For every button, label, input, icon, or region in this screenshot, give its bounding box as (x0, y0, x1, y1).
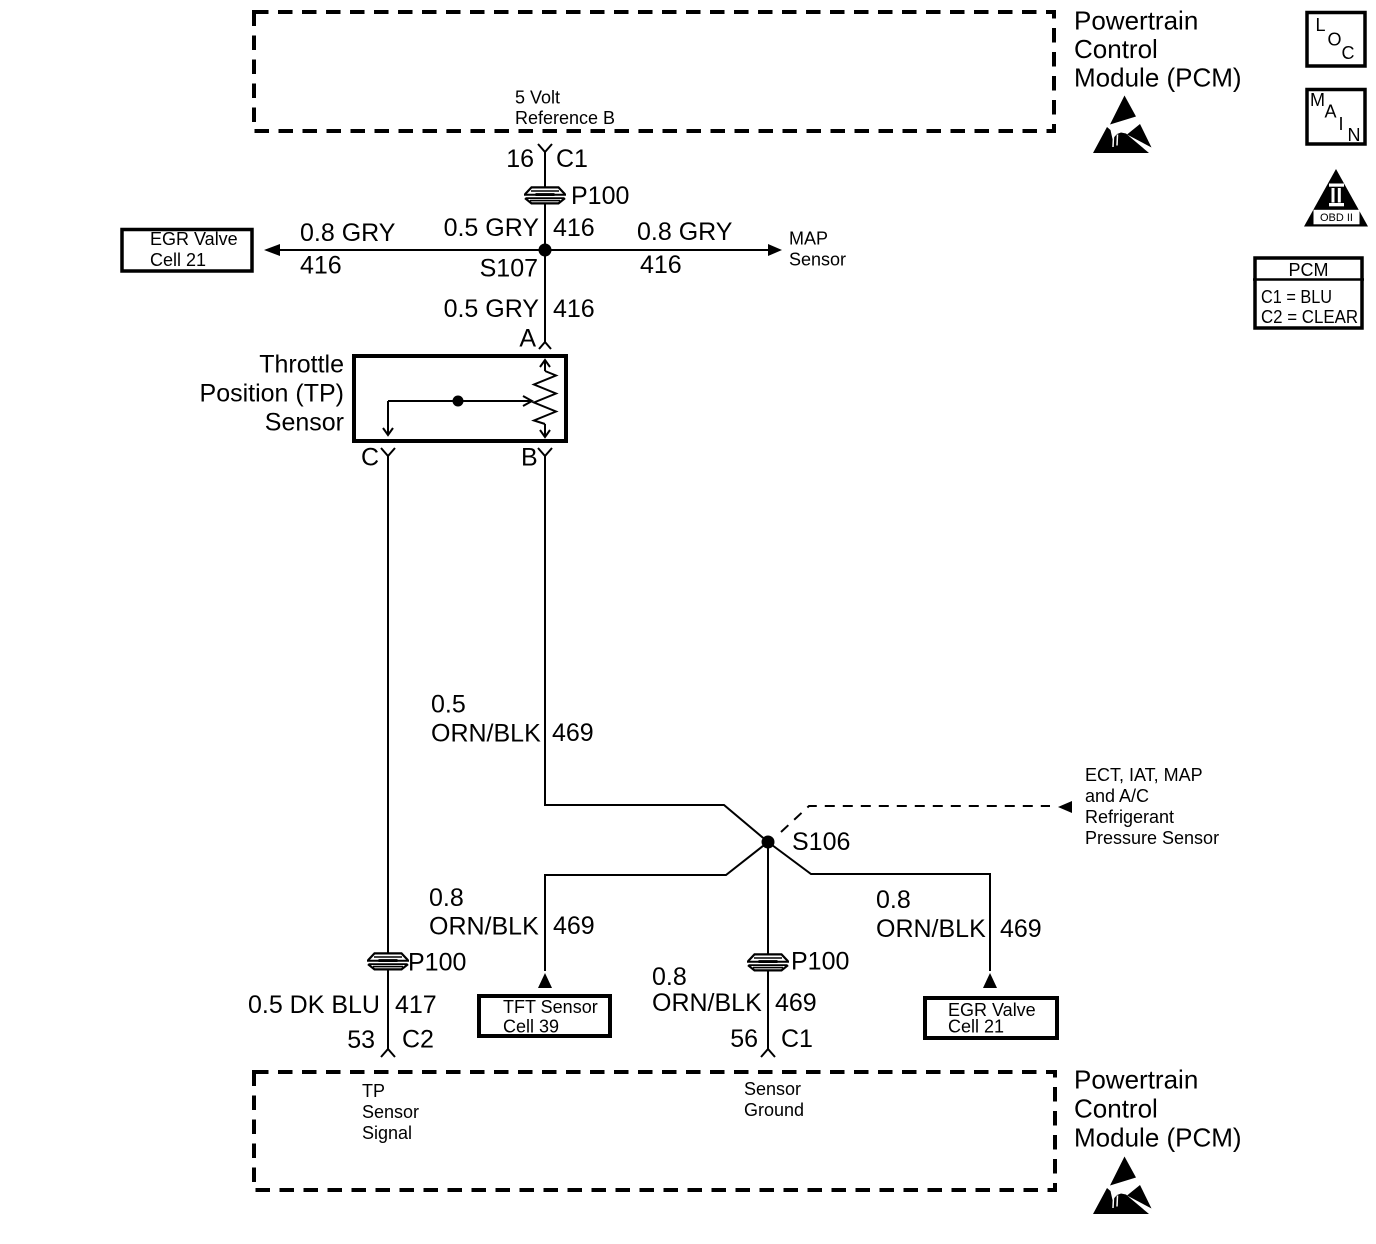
svg-text:ORN/BLK: ORN/BLK (431, 720, 541, 748)
svg-text:56: 56 (730, 1025, 758, 1053)
svg-text:Signal: Signal (362, 1123, 412, 1143)
grommet P100 left (367, 953, 409, 969)
svg-text:C1: C1 (556, 145, 588, 173)
svg-text:Cell 39: Cell 39 (503, 1017, 559, 1037)
wire 469 P100 to pin 56 (767, 970, 769, 1049)
PCM label bottom (1074, 1065, 1242, 1153)
svg-text:Powertrain: Powertrain (1074, 6, 1198, 36)
MAIN box (1307, 90, 1365, 146)
wire 469 S106 to EGR valve (768, 842, 997, 988)
label 0.5 DK BLU 417 (248, 991, 437, 1019)
ESD symbol bottom (1093, 1157, 1152, 1215)
svg-text:0.5 GRY: 0.5 GRY (444, 295, 540, 323)
svg-text:C2: C2 (402, 1026, 434, 1054)
svg-text:53: 53 (347, 1026, 375, 1054)
PCM dashed box bottom (254, 1072, 1055, 1190)
svg-text:0.8 GRY: 0.8 GRY (300, 219, 396, 247)
svg-text:A: A (519, 325, 536, 353)
node S107 (480, 244, 552, 283)
svg-text:MAP: MAP (789, 229, 828, 249)
svg-text:Cell 21: Cell 21 (150, 250, 206, 270)
wire 416 to MAP Sensor (right) (545, 244, 782, 256)
svg-text:Reference B: Reference B (515, 108, 615, 128)
svg-text:C: C (1342, 43, 1355, 63)
TFT Sensor Cell 39 box (479, 996, 610, 1037)
pin 53 C2 connector (347, 1026, 434, 1058)
svg-text:ORN/BLK: ORN/BLK (429, 913, 539, 941)
svg-text:Module (PCM): Module (PCM) (1074, 63, 1242, 93)
svg-text:0.8: 0.8 (429, 884, 464, 912)
wire 417 P100 to pin 53 (387, 969, 389, 1049)
svg-text:Cell 21: Cell 21 (948, 1017, 1004, 1037)
svg-text:469: 469 (775, 989, 817, 1017)
svg-text:ECT, IAT, MAP: ECT, IAT, MAP (1085, 765, 1203, 785)
node S106 (762, 828, 851, 856)
svg-text:16: 16 (506, 145, 534, 173)
label Sensor Ground (744, 1079, 804, 1120)
wire 416 S107 to pin A (544, 250, 546, 342)
svg-text:469: 469 (553, 912, 595, 940)
svg-text:C1 = BLU: C1 = BLU (1261, 287, 1332, 307)
wire 469 S106 to TFT sensor (538, 842, 768, 988)
label 0.8 GRY 416 right (637, 218, 733, 279)
svg-text:0.8: 0.8 (876, 886, 911, 914)
wire 416 P100 to S107 (544, 203, 546, 250)
svg-text:TP: TP (362, 1081, 385, 1101)
svg-text:and A/C: and A/C (1085, 786, 1149, 806)
label 0.5 GRY 416 upper (444, 214, 595, 242)
svg-text:416: 416 (300, 252, 342, 280)
svg-text:Position (TP): Position (TP) (200, 380, 344, 408)
svg-text:469: 469 (552, 719, 594, 747)
PCM label top (1074, 6, 1242, 93)
svg-text:Control: Control (1074, 1094, 1158, 1124)
EGR Valve Cell 21 box top (122, 229, 252, 271)
svg-text:0.5 GRY: 0.5 GRY (444, 214, 540, 242)
svg-text:416: 416 (553, 295, 595, 323)
wire 417 from pin C down (387, 456, 389, 954)
svg-text:0.8 GRY: 0.8 GRY (637, 218, 733, 246)
svg-text:Throttle: Throttle (259, 351, 344, 379)
connector C1 pin 16 (506, 144, 588, 173)
wire 469 S106 down to P100 (767, 842, 769, 954)
EGR Valve Cell 21 box bottom (925, 998, 1057, 1038)
ESD symbol top (1093, 96, 1152, 154)
svg-text:5 Volt: 5 Volt (515, 88, 560, 108)
OBD II symbol (1304, 169, 1368, 227)
svg-text:C2 = CLEAR: C2 = CLEAR (1261, 307, 1358, 327)
PCM dashed box top (254, 12, 1054, 131)
pin 56 C1 connector (730, 1025, 813, 1057)
wire 416 to EGR Valve (left) (264, 244, 545, 256)
svg-text:B: B (521, 444, 538, 472)
svg-text:I: I (1339, 114, 1344, 134)
LOC box (1307, 13, 1365, 67)
svg-text:Sensor: Sensor (265, 409, 344, 437)
wire 469 from pin B to S106 (545, 456, 768, 842)
grommet P100 mid (747, 954, 789, 970)
label 5 Volt Reference B (515, 88, 615, 129)
svg-text:M: M (1310, 90, 1325, 110)
svg-text:L: L (1316, 15, 1326, 35)
svg-text:TFT Sensor: TFT Sensor (503, 997, 598, 1017)
pin C connector (361, 444, 395, 472)
svg-text:S107: S107 (480, 255, 538, 283)
svg-text:S106: S106 (792, 828, 850, 856)
label ECT IAT MAP and A/C Refrigerant Pressure Sensor (1085, 765, 1219, 848)
svg-text:416: 416 (553, 214, 595, 242)
svg-text:P100: P100 (791, 948, 849, 976)
svg-text:Sensor: Sensor (362, 1102, 419, 1122)
svg-text:0.5: 0.5 (431, 691, 466, 719)
svg-text:Ground: Ground (744, 1100, 804, 1120)
svg-text:PCM: PCM (1289, 260, 1329, 280)
svg-text:O: O (1328, 30, 1342, 50)
svg-text:N: N (1348, 125, 1361, 145)
label 0.5 GRY 416 lower (444, 295, 595, 323)
svg-text:Control: Control (1074, 34, 1158, 64)
svg-text:C1: C1 (781, 1025, 813, 1053)
wire 416 from C1 to P100 (544, 152, 546, 187)
svg-text:0.8: 0.8 (652, 963, 687, 991)
label TP Sensor Signal (362, 1081, 419, 1143)
svg-text:Sensor: Sensor (789, 250, 846, 270)
TP sensor wiper (383, 396, 532, 436)
svg-text:A: A (1325, 102, 1337, 122)
svg-text:Refrigerant: Refrigerant (1085, 807, 1174, 827)
svg-text:OBD II: OBD II (1320, 212, 1353, 224)
svg-text:EGR Valve: EGR Valve (150, 229, 238, 249)
svg-text:Sensor: Sensor (744, 1079, 801, 1099)
svg-text:Pressure Sensor: Pressure Sensor (1085, 828, 1219, 848)
label 0.8 GRY 416 left (300, 219, 396, 280)
svg-text:469: 469 (1000, 915, 1042, 943)
PCM connector legend (1253, 258, 1364, 328)
svg-text:P100: P100 (571, 182, 629, 210)
svg-text:P100: P100 (408, 949, 466, 977)
label 0.8 ORN/BLK 469 left (429, 884, 595, 941)
label MAP Sensor (789, 229, 846, 270)
svg-text:416: 416 (640, 251, 682, 279)
label 0.8 ORN/BLK 469 right (876, 886, 1042, 943)
svg-text:0.5 DK BLU: 0.5 DK BLU (248, 991, 380, 1019)
pin B connector (521, 444, 552, 472)
svg-text:ORN/BLK: ORN/BLK (876, 915, 986, 943)
svg-text:Module (PCM): Module (PCM) (1074, 1123, 1242, 1153)
label 0.5 ORN/BLK 469 (431, 691, 594, 748)
dashed wire to ECT IAT MAP sensors (781, 801, 1072, 832)
label 0.8 ORN/BLK 469 mid (652, 963, 817, 1017)
svg-text:417: 417 (395, 991, 437, 1019)
grommet P100 top (524, 187, 566, 203)
pin A connector (519, 325, 551, 353)
label Throttle Position (TP) Sensor (200, 351, 344, 437)
svg-text:ORN/BLK: ORN/BLK (652, 989, 762, 1017)
svg-text:C: C (361, 444, 379, 472)
TP Sensor box (354, 356, 566, 441)
TP sensor potentiometer resistor (534, 360, 556, 437)
svg-text:Powertrain: Powertrain (1074, 1065, 1198, 1095)
